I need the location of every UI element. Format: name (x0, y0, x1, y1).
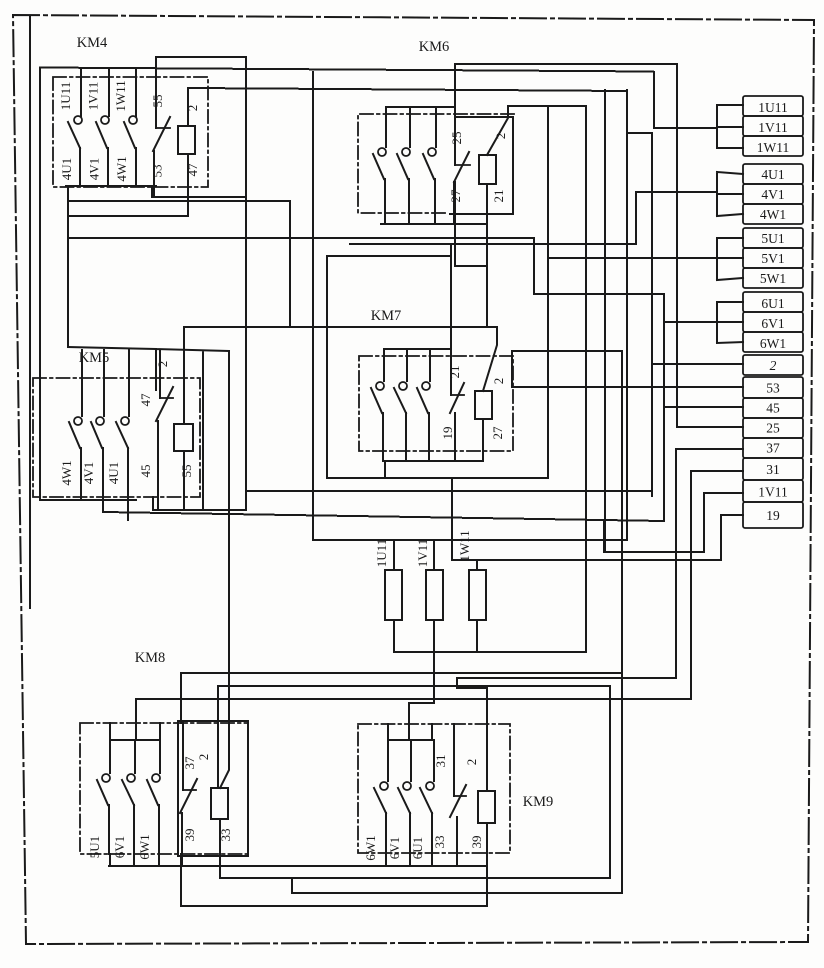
wire KM5 bottom bus (40, 499, 136, 501)
svg-text:33: 33 (432, 836, 447, 849)
fuse FU 1W11 (469, 570, 486, 620)
svg-text:45: 45 (138, 465, 153, 478)
svg-text:4W1: 4W1 (114, 156, 129, 181)
svg-text:6V1: 6V1 (387, 837, 402, 859)
wire KM7 bottom bus (385, 419, 483, 478)
wire KM5 bottom third tap (127, 500, 129, 520)
svg-text:1U11: 1U11 (758, 100, 788, 115)
svg-text:6V1: 6V1 (112, 836, 127, 858)
KM7 auxiliary contact 21-19 (450, 244, 452, 395)
svg-text:21: 21 (447, 366, 462, 379)
wire KM5 tap riser from KM8 coil return (609, 686, 611, 878)
wire KM8 coil bottom rail (220, 819, 610, 878)
KM9 main contact 6W1 (387, 740, 389, 781)
wire fuse bottom bus (394, 106, 586, 652)
coil KM6 (479, 155, 496, 184)
svg-text:2: 2 (196, 754, 211, 761)
KM7 main contact b (406, 349, 408, 381)
KM8 aux-coil loop box (178, 721, 248, 856)
svg-text:KM6: KM6 (419, 39, 450, 55)
svg-text:4U1: 4U1 (761, 167, 784, 182)
svg-text:4V1: 4V1 (87, 158, 102, 180)
terminal bracket group 4 (717, 302, 743, 343)
svg-text:21: 21 (491, 190, 506, 203)
svg-text:53: 53 (150, 165, 165, 178)
wire net 2 staircase (627, 133, 743, 496)
wire net 31 riser (691, 471, 743, 699)
svg-text:4V1: 4V1 (81, 462, 96, 484)
svg-text:45: 45 (766, 401, 780, 416)
coil KM9 (478, 791, 495, 823)
fuse FU 1U11 (385, 570, 402, 620)
svg-text:5W1: 5W1 (760, 271, 786, 286)
svg-text:2: 2 (185, 105, 200, 112)
KM8 main contact 5U1 (109, 740, 111, 773)
contactor KM9 mechanical linkage box (358, 724, 510, 853)
wire KM4 box right edge drop (245, 197, 247, 491)
svg-text:6U1: 6U1 (761, 296, 784, 311)
wire 6-group bracket feed (664, 321, 717, 323)
wire coil supply bus node 2 (188, 88, 627, 91)
svg-text:47: 47 (138, 393, 153, 407)
svg-text:6W1: 6W1 (760, 336, 786, 351)
KM4 auxiliary contact 55-53 (156, 127, 170, 129)
svg-text:2: 2 (464, 759, 479, 766)
fuse FU 1V11 (426, 570, 443, 620)
wire net 37 riser (676, 449, 743, 678)
KM5 main contact 4V1 (103, 350, 105, 416)
contactor KM5 coil loop box (68, 347, 246, 510)
svg-text:55: 55 (150, 95, 165, 108)
terminal bracket group 2 (717, 172, 743, 216)
wire KM5 bottom to terminal 19 row (103, 500, 664, 521)
wire top bus to 1U11 terminals (40, 68, 653, 72)
svg-text:53: 53 (766, 380, 780, 395)
KM7 outer wire box (327, 106, 548, 478)
KM6 outer wire box (313, 72, 627, 540)
wire KM4 bottom long feeder to corridor (68, 238, 664, 294)
svg-text:2: 2 (155, 361, 170, 368)
svg-text:2: 2 (770, 358, 777, 373)
KM6 top loop wire to corridor (455, 63, 677, 65)
svg-text:KM8: KM8 (135, 650, 166, 666)
wire KM6 coil 21 drop to node-2 rail (486, 184, 488, 327)
svg-text:19: 19 (440, 427, 455, 440)
wire node-2 long horizontal (184, 326, 497, 328)
wire KM6 bottom area horizontal (350, 243, 636, 245)
svg-text:KM4: KM4 (77, 35, 108, 51)
wire net 1V11 feed jog (605, 90, 743, 552)
KM4 main contact 1V11-4V1 (108, 68, 110, 116)
svg-text:5V1: 5V1 (761, 251, 784, 266)
coil KM5 (174, 424, 193, 451)
wire 1-group staircase (654, 72, 717, 128)
KM5 main contact 4U1 (128, 350, 130, 416)
wire left loop down to KM5 (39, 68, 41, 500)
wire KM9 contact bottom risers (386, 853, 432, 866)
KM5 auxiliary contact 47-45 (159, 351, 161, 398)
wire KM7 box drop to 19 row (451, 478, 453, 560)
svg-text:5U1: 5U1 (87, 836, 102, 858)
coil KM7 (475, 391, 492, 419)
contactor KM4 coil loop box (152, 57, 246, 197)
svg-text:5U1: 5U1 (761, 231, 784, 246)
wire corridor riser to bottom rail (621, 351, 623, 893)
wire KM9 coil bottom riser (486, 823, 488, 906)
wire KM8 top feed rail (136, 698, 691, 700)
wire KM8 contacts top bus (110, 699, 160, 740)
wire KM7 top bus (384, 348, 451, 350)
svg-text:55: 55 (179, 465, 194, 478)
contactor KM5 mechanical linkage box (33, 378, 200, 497)
svg-text:1V11: 1V11 (86, 82, 101, 110)
contactor KM4 mechanical linkage box (53, 77, 208, 187)
svg-text:KM7: KM7 (371, 308, 402, 324)
left inner border wire (29, 17, 31, 608)
wire net 1V11 long horizontal (246, 490, 652, 492)
wire coil-2 upper rail (508, 105, 586, 107)
svg-text:6W1: 6W1 (363, 835, 378, 860)
KM4 main contact 1W11-4W1 (135, 69, 137, 116)
wire KM8 coil 2 riser from KM5 (228, 351, 230, 699)
KM6 main contact c (435, 107, 437, 147)
svg-text:1V11: 1V11 (758, 484, 788, 499)
wire KM6 contacts top bus (386, 106, 455, 108)
svg-text:4W1: 4W1 (59, 460, 74, 485)
KM6 aux-coil loop box (450, 117, 513, 214)
svg-text:1V11: 1V11 (415, 539, 430, 567)
contactor KM8 mechanical linkage box (80, 723, 248, 854)
svg-text:27: 27 (490, 426, 505, 440)
KM9 auxiliary contact 31-33 (453, 724, 455, 796)
terminal strip X1 (743, 96, 803, 528)
KM6 main contact b (409, 107, 411, 147)
KM7 main contact c (429, 349, 431, 381)
wire riser to 1V11 jog (603, 520, 605, 552)
wire KM8-KM9 bottom bus 1 (109, 854, 487, 866)
svg-text:25: 25 (766, 421, 780, 436)
svg-text:39: 39 (182, 829, 197, 842)
svg-text:37: 37 (766, 441, 780, 456)
wire KM8-KM9 bottom bus 2 (292, 878, 622, 893)
KM6 main contact a (385, 107, 387, 147)
KM9 main contact 6U1 (433, 740, 435, 781)
wire KM9 coil top feed (457, 678, 676, 688)
svg-text:6W1: 6W1 (137, 834, 152, 859)
svg-text:1U11: 1U11 (58, 82, 73, 110)
wire net 25 riser (677, 64, 743, 427)
KM6 auxiliary contact 25-27 (454, 64, 456, 165)
svg-text:2: 2 (493, 133, 508, 140)
KM8 outer wire box 2 (218, 686, 610, 788)
svg-text:2: 2 (491, 378, 506, 385)
svg-text:6U1: 6U1 (410, 837, 425, 859)
svg-text:KM9: KM9 (523, 794, 554, 810)
svg-text:1W11: 1W11 (757, 140, 790, 155)
svg-text:4W1: 4W1 (760, 207, 786, 222)
contactor KM7 mechanical linkage box (359, 356, 513, 451)
wire long horizontal to corridor riser (513, 350, 622, 352)
svg-text:1W11: 1W11 (457, 530, 472, 561)
terminal bracket group 1 (717, 105, 743, 148)
wire KM4 coil 47 drop (68, 154, 188, 216)
svg-text:31: 31 (433, 755, 448, 768)
wire KM6 supply jog (455, 182, 487, 266)
KM8 auxiliary contact 37-39 (182, 721, 184, 790)
svg-text:25: 25 (449, 132, 464, 145)
wire net 45 riser and feed (664, 294, 743, 521)
KM7 main contact a (383, 349, 385, 381)
KM9 main contact 6V1 (410, 740, 412, 781)
svg-text:39: 39 (469, 836, 484, 849)
svg-text:19: 19 (766, 508, 780, 523)
KM4 main contact 1U11-4U1 (80, 68, 82, 116)
wire net 53 feed (512, 351, 743, 387)
KM8 outer wire box 1 (181, 673, 622, 906)
wire KM6 bottoms bus (381, 223, 487, 225)
svg-text:1W11: 1W11 (113, 80, 128, 111)
wire KM9 contacts top bus (388, 703, 432, 740)
KM5 main contact 4W1 (81, 350, 83, 416)
wire KM4 bottom feeder down to KM5 (67, 186, 69, 347)
coil KM8 (211, 788, 228, 819)
svg-text:6V1: 6V1 (761, 316, 784, 331)
wire KM5 coil bottom (183, 451, 185, 510)
wire 5-group bracket feed (548, 257, 717, 259)
svg-text:37: 37 (182, 756, 197, 770)
svg-text:1U11: 1U11 (374, 539, 389, 567)
svg-text:4V1: 4V1 (761, 187, 784, 202)
KM8 main contact 6W1 (159, 740, 161, 773)
contactor KM6 mechanical linkage box (358, 114, 514, 213)
svg-text:1V11: 1V11 (758, 120, 788, 135)
wire 4-group staircase (636, 192, 717, 244)
wire KM4 bottom jog to KM6 area (68, 201, 290, 327)
terminal bracket group 3 (717, 238, 743, 280)
svg-text:4U1: 4U1 (59, 158, 74, 180)
coil KM4 (178, 126, 195, 154)
KM8 main contact 6V1 (134, 740, 136, 773)
wire KM4 contacts bottom bus (66, 185, 156, 187)
svg-text:31: 31 (766, 462, 780, 477)
svg-text:4U1: 4U1 (106, 462, 121, 484)
wire net 19 feed (452, 515, 743, 560)
wire KM9 middle riser to fuse rail (409, 702, 434, 704)
